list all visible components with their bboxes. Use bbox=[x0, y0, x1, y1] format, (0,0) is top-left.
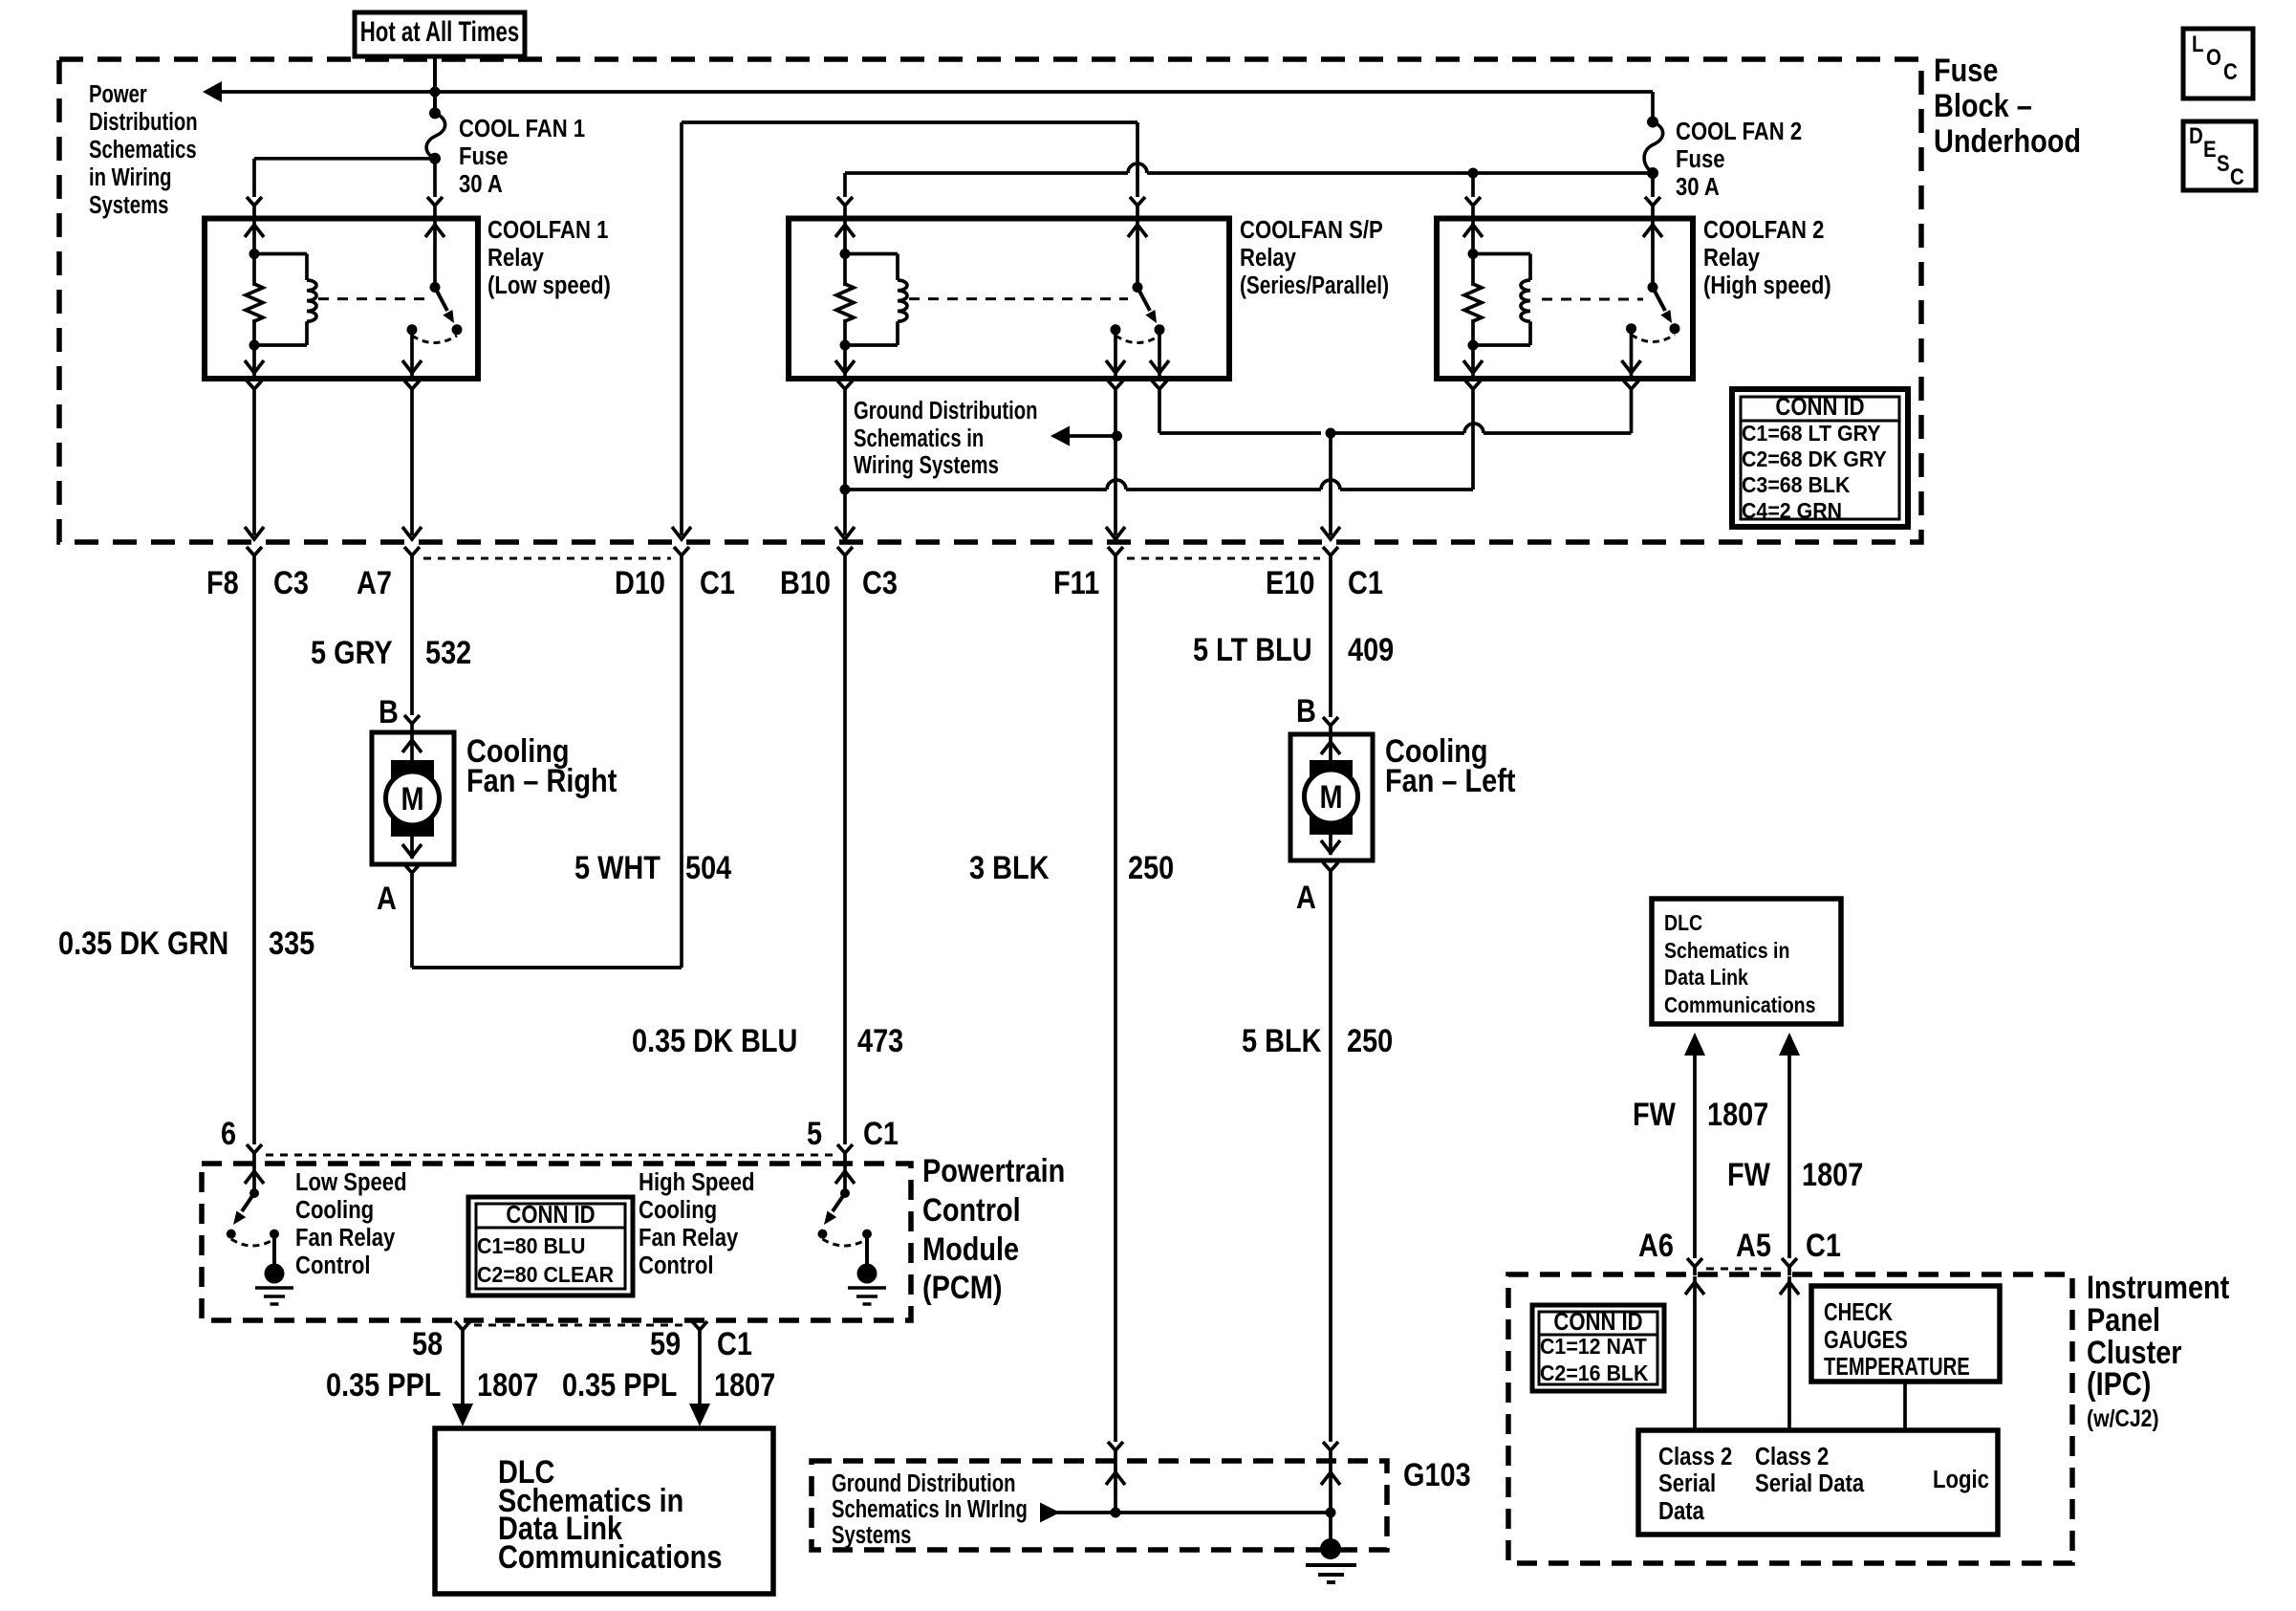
note Power Distribution Schematics in Wiring Systems bbox=[89, 80, 198, 219]
label G103 bbox=[1403, 1456, 1471, 1493]
resistor in relay K1 bbox=[246, 254, 263, 346]
note Ground Distribution Schematics in Wiring Systems upper bbox=[854, 397, 1037, 479]
relay K1 actuation dashed link bbox=[318, 297, 425, 300]
connector E10 C1 bbox=[1266, 547, 1383, 601]
svg-text:Control: Control bbox=[922, 1191, 1021, 1229]
svg-text:Class 2: Class 2 bbox=[1658, 1443, 1732, 1470]
svg-text:Control: Control bbox=[295, 1252, 370, 1279]
connector below relay K3 contact bbox=[1624, 381, 1639, 433]
svg-text:C2=80 CLEAR: C2=80 CLEAR bbox=[477, 1262, 614, 1287]
motor M2 cooling fan left bbox=[1290, 692, 1373, 916]
svg-text:Relay: Relay bbox=[1240, 244, 1296, 272]
svg-text:Panel: Panel bbox=[2087, 1301, 2160, 1339]
connector B10 C3 bbox=[780, 547, 898, 601]
connector tie line A6 to A5 bbox=[1706, 1268, 1778, 1271]
svg-text:Serial: Serial bbox=[1658, 1469, 1716, 1497]
connector F11 at G103 bbox=[1106, 1442, 1125, 1513]
svg-text:5: 5 bbox=[807, 1115, 822, 1152]
svg-text:Fan – Left: Fan – Left bbox=[1385, 762, 1516, 799]
svg-text:532: 532 bbox=[425, 634, 471, 671]
connector below relay K2 left contact bbox=[1108, 381, 1123, 535]
fuse COOL FAN 1 30 A bbox=[426, 107, 445, 163]
relay K2 right pin arrow bbox=[1128, 225, 1147, 237]
DLC Schematics box lower left bbox=[435, 1428, 773, 1594]
ground inside PCM low speed bbox=[255, 1234, 293, 1304]
CONN ID table IPC bbox=[1532, 1305, 1664, 1391]
logic box in IPC bbox=[1638, 1430, 1998, 1535]
connector tie line F11 to E10 bbox=[1127, 557, 1320, 560]
svg-text:M: M bbox=[1319, 778, 1342, 816]
wire high speed coil feed from B10 bbox=[840, 480, 1474, 495]
connector fan left ground at G103 bbox=[1321, 1442, 1340, 1513]
connector tie line 58 to 59 bbox=[474, 1324, 688, 1327]
svg-text:(Low speed): (Low speed) bbox=[487, 272, 611, 299]
ground inside PCM high speed bbox=[848, 1234, 886, 1304]
svg-text:1807: 1807 bbox=[1802, 1156, 1863, 1193]
svg-text:CONN ID: CONN ID bbox=[1553, 1308, 1642, 1336]
relay K2 coil assembly bbox=[840, 249, 908, 351]
pin 58 connector below PCM bbox=[412, 1321, 470, 1362]
label 0.35 DK BLU 473 bbox=[632, 1022, 903, 1059]
wire 59 down to DLC bbox=[689, 1339, 710, 1426]
high speed control switch in PCM bbox=[818, 1162, 873, 1246]
CONN ID table PCM bbox=[468, 1197, 633, 1295]
label Instrument Panel Cluster IPC bbox=[2087, 1269, 2230, 1432]
wire class2 A6 inside IPC bbox=[1685, 1276, 1704, 1430]
Fuse Block - Underhood dashed boundary bbox=[59, 59, 1921, 542]
label 0.35 PPL 1807 left bbox=[326, 1366, 538, 1404]
svg-text:High Speed: High Speed bbox=[639, 1168, 754, 1196]
svg-text:C1: C1 bbox=[863, 1115, 899, 1152]
svg-text:CONN ID: CONN ID bbox=[1775, 393, 1864, 421]
svg-text:C1: C1 bbox=[1806, 1227, 1841, 1264]
svg-text:Fuse: Fuse bbox=[1934, 52, 1998, 89]
connector D10 C1 bbox=[615, 547, 735, 601]
PCM dashed boundary bbox=[202, 1164, 911, 1320]
svg-text:C3: C3 bbox=[862, 564, 898, 601]
relay K2 coil exit wire bbox=[835, 345, 855, 376]
svg-text:250: 250 bbox=[1128, 849, 1174, 886]
connector relay2 right pin bbox=[1130, 197, 1145, 288]
svg-text:473: 473 bbox=[857, 1022, 903, 1059]
svg-text:A: A bbox=[377, 880, 397, 917]
relay K3 switch exit wire bbox=[1622, 329, 1641, 376]
power distribution bus wire with left arrow bbox=[203, 81, 1653, 102]
pin 5 C1 connector at PCM bbox=[807, 1115, 899, 1162]
relay K3 left pin arrow bbox=[1463, 225, 1483, 237]
svg-text:409: 409 bbox=[1348, 631, 1394, 668]
svg-text:Power: Power bbox=[89, 80, 147, 108]
relay K2 switch left contact exit wire bbox=[1106, 330, 1125, 376]
svg-text:D10: D10 bbox=[615, 564, 665, 601]
svg-text:Data: Data bbox=[1658, 1497, 1704, 1525]
svg-text:D: D bbox=[2189, 122, 2203, 148]
svg-text:FW: FW bbox=[1633, 1096, 1676, 1133]
svg-text:C1=68 LT GRY: C1=68 LT GRY bbox=[1742, 421, 1881, 446]
svg-text:6: 6 bbox=[221, 1115, 236, 1152]
motor M1 cooling fan right bbox=[372, 693, 454, 917]
svg-text:C3=68 BLK: C3=68 BLK bbox=[1742, 472, 1850, 497]
svg-text:C2=16 BLK: C2=16 BLK bbox=[1540, 1361, 1648, 1385]
relay K2 actuation dashed link bbox=[909, 297, 1128, 300]
svg-text:FW: FW bbox=[1727, 1156, 1770, 1193]
relay K1 right pin arrow bbox=[425, 225, 444, 237]
relay K1 switch bbox=[407, 282, 463, 343]
svg-text:Systems: Systems bbox=[832, 1521, 911, 1549]
relay K3 COOLFAN 2 box bbox=[1437, 219, 1693, 380]
relay K3 coil assembly mirrored bbox=[1468, 249, 1531, 351]
label COOLFAN 1 Relay (Low speed) bbox=[487, 216, 611, 299]
svg-text:0.35 DK GRN: 0.35 DK GRN bbox=[58, 925, 228, 962]
svg-text:in Wiring: in Wiring bbox=[89, 163, 171, 191]
label FW 1807 second bbox=[1727, 1156, 1863, 1193]
label 3 BLK 250 bbox=[969, 849, 1174, 886]
label 0.35 PPL 1807 right bbox=[562, 1366, 775, 1404]
wire fuse1 output to relay1 pins bbox=[254, 159, 435, 197]
svg-text:30 A: 30 A bbox=[1676, 173, 1720, 201]
svg-text:GAUGES: GAUGES bbox=[1824, 1326, 1908, 1354]
connector below relay K2 coil bbox=[837, 381, 853, 535]
border exit arrows on fuse block bottom bbox=[245, 527, 1340, 539]
svg-text:CONN ID: CONN ID bbox=[506, 1201, 595, 1229]
svg-text:1807: 1807 bbox=[714, 1366, 775, 1404]
relay K3 right pin arrow bbox=[1643, 225, 1662, 237]
svg-text:5 GRY: 5 GRY bbox=[311, 634, 393, 671]
svg-text:C1: C1 bbox=[1348, 564, 1383, 601]
svg-text:Relay: Relay bbox=[1703, 244, 1760, 272]
connector F11 bbox=[1053, 547, 1123, 601]
svg-text:Fuse: Fuse bbox=[459, 142, 509, 170]
label 5 GRY 532 bbox=[311, 634, 471, 671]
LOC reference box bbox=[2183, 29, 2253, 98]
svg-text:Wiring Systems: Wiring Systems bbox=[854, 451, 999, 479]
label Low Speed Cooling Fan Relay Control bbox=[295, 1168, 407, 1279]
svg-text:Relay: Relay bbox=[487, 244, 544, 272]
wire relay K2 right contact over to relay K3 contact bbox=[1159, 424, 1632, 433]
connector tie line A7 to D10 bbox=[423, 557, 671, 560]
svg-text:Serial Data: Serial Data bbox=[1755, 1469, 1865, 1497]
DLC Schematics box upper right bbox=[1652, 899, 1841, 1024]
relay K2 left pin arrow bbox=[835, 225, 855, 237]
connector relay2 left pin bbox=[837, 197, 853, 254]
svg-text:C: C bbox=[2223, 58, 2238, 84]
svg-text:Logic: Logic bbox=[1933, 1466, 1989, 1493]
svg-text:Instrument: Instrument bbox=[2087, 1269, 2230, 1306]
svg-text:5 BLK: 5 BLK bbox=[1242, 1022, 1322, 1059]
wire D10 down and over to fan right A bbox=[412, 564, 682, 968]
svg-text:Fan – Right: Fan – Right bbox=[466, 762, 617, 799]
svg-text:C1: C1 bbox=[700, 564, 735, 601]
svg-text:Distribution: Distribution bbox=[89, 108, 198, 136]
low speed control switch in PCM bbox=[227, 1162, 279, 1246]
relay K1 switch exit wire bbox=[402, 330, 422, 376]
svg-text:Systems: Systems bbox=[89, 191, 168, 219]
svg-text:B: B bbox=[379, 693, 399, 730]
svg-text:59: 59 bbox=[650, 1325, 681, 1362]
svg-text:Underhood: Underhood bbox=[1934, 122, 2081, 160]
label Fuse Block - Underhood bbox=[1934, 52, 2081, 160]
svg-text:Fan Relay: Fan Relay bbox=[295, 1224, 396, 1252]
svg-text:G103: G103 bbox=[1403, 1456, 1471, 1493]
relay K3 actuation dashed link bbox=[1542, 298, 1643, 301]
relay K2 COOLFAN S/P box bbox=[789, 219, 1229, 380]
svg-text:Block –: Block – bbox=[1934, 87, 2032, 124]
ground G103 symbol bbox=[1306, 1513, 1356, 1582]
connector relay1 left pin bbox=[247, 197, 262, 254]
svg-text:(High speed): (High speed) bbox=[1703, 272, 1831, 299]
relay K3 coil exit wire bbox=[1463, 345, 1483, 376]
svg-text:F11: F11 bbox=[1053, 564, 1099, 601]
svg-text:Class 2: Class 2 bbox=[1755, 1443, 1829, 1470]
label Cooling Fan Right bbox=[466, 732, 617, 799]
svg-text:Module: Module bbox=[922, 1230, 1019, 1268]
wire fan left A down to G103 bbox=[1329, 880, 1332, 1442]
svg-text:Fan Relay: Fan Relay bbox=[639, 1224, 739, 1252]
svg-text:C4=2 GRN: C4=2 GRN bbox=[1742, 498, 1842, 523]
svg-text:Hot at All Times: Hot at All Times bbox=[360, 15, 519, 48]
relay K1 COOLFAN 1 box bbox=[205, 219, 478, 380]
svg-text:0.35 PPL: 0.35 PPL bbox=[562, 1366, 677, 1404]
svg-text:1807: 1807 bbox=[477, 1366, 538, 1404]
svg-text:Control: Control bbox=[639, 1252, 713, 1279]
wire D10 feed riser to relay2 switch common bbox=[682, 122, 1137, 535]
fuse COOL FAN 2 30 A bbox=[1644, 117, 1663, 180]
ground bus wire in G103 bbox=[1040, 1503, 1336, 1523]
svg-text:E: E bbox=[2203, 136, 2217, 162]
resistor in relay K2 bbox=[836, 254, 854, 346]
svg-text:5 LT BLU: 5 LT BLU bbox=[1193, 631, 1312, 668]
wire E10 down to fan left B bbox=[1329, 564, 1332, 717]
svg-text:58: 58 bbox=[412, 1325, 443, 1362]
svg-text:O: O bbox=[2206, 44, 2221, 70]
svg-text:COOLFAN 2: COOLFAN 2 bbox=[1703, 216, 1824, 244]
connector A7 bbox=[357, 547, 420, 601]
relay K1 left pin arrow bbox=[245, 225, 264, 237]
svg-text:COOL FAN 2: COOL FAN 2 bbox=[1676, 118, 1802, 145]
svg-text:Low Speed: Low Speed bbox=[295, 1168, 407, 1196]
CHECK GAUGES TEMPERATURE box bbox=[1811, 1286, 2000, 1382]
svg-text:(w/CJ2): (w/CJ2) bbox=[2087, 1404, 2159, 1431]
svg-text:M: M bbox=[401, 780, 423, 817]
svg-text:30 A: 30 A bbox=[459, 170, 503, 198]
svg-text:S: S bbox=[2217, 150, 2230, 176]
wire from Hot at All Times down bbox=[433, 56, 437, 113]
connector relay1 right pin bbox=[427, 197, 443, 288]
label Cooling Fan Left bbox=[1385, 732, 1516, 799]
G103 dashed boundary bbox=[812, 1461, 1387, 1550]
svg-text:COOLFAN 1: COOLFAN 1 bbox=[487, 216, 608, 244]
relay K1 coil assembly bbox=[249, 249, 317, 351]
label 5 LT BLU 409 bbox=[1193, 631, 1394, 668]
svg-text:Fuse: Fuse bbox=[1676, 145, 1725, 173]
svg-text:Ground Distribution: Ground Distribution bbox=[832, 1469, 1015, 1497]
svg-text:DLC: DLC bbox=[1664, 911, 1702, 936]
svg-text:Ground Distribution: Ground Distribution bbox=[854, 397, 1037, 425]
connector below relay K2 right contact bbox=[1152, 381, 1167, 433]
svg-text:A5: A5 bbox=[1736, 1227, 1771, 1264]
Hot at All Times power tag bbox=[355, 12, 525, 56]
svg-text:Communications: Communications bbox=[1664, 993, 1815, 1018]
wire B10 down to PCM bbox=[843, 564, 847, 1144]
svg-text:A6: A6 bbox=[1638, 1227, 1674, 1264]
wire A5 serial data up to DLC bbox=[1779, 1033, 1800, 1258]
connector tie line pin6 to pin5 bbox=[266, 1154, 834, 1157]
svg-text:A7: A7 bbox=[357, 564, 392, 601]
svg-text:5 WHT: 5 WHT bbox=[574, 849, 661, 886]
svg-text:3 BLK: 3 BLK bbox=[969, 849, 1050, 886]
svg-text:Cooling: Cooling bbox=[295, 1196, 374, 1224]
svg-text:Data Link: Data Link bbox=[1664, 966, 1748, 991]
node junction E10 tap bbox=[1326, 428, 1336, 536]
pin 59 C1 connector below PCM bbox=[650, 1321, 752, 1362]
svg-text:(IPC): (IPC) bbox=[2087, 1365, 2151, 1403]
relay K2 switch bbox=[1111, 282, 1165, 343]
svg-text:C3: C3 bbox=[273, 564, 309, 601]
CONN ID table fuse block bbox=[1732, 389, 1908, 527]
wire check gauges to logic box bbox=[1903, 1382, 1907, 1430]
connector below relay K1 left bbox=[247, 381, 262, 535]
label 5 WHT 504 bbox=[574, 849, 732, 886]
relay K1 coil exit wire bbox=[245, 345, 264, 376]
svg-text:1807: 1807 bbox=[1707, 1096, 1768, 1133]
relay K2 switch right contact exit wire bbox=[1150, 330, 1169, 376]
resistor in relay K3 bbox=[1464, 254, 1482, 346]
svg-text:Cooling: Cooling bbox=[639, 1196, 717, 1224]
svg-text:335: 335 bbox=[269, 925, 314, 962]
svg-text:B10: B10 bbox=[780, 564, 831, 601]
svg-text:CHECK: CHECK bbox=[1824, 1298, 1893, 1326]
label 5 BLK 250 bbox=[1242, 1022, 1393, 1059]
svg-text:Schematics In WIrIng: Schematics In WIrIng bbox=[832, 1495, 1028, 1523]
svg-text:F8: F8 bbox=[206, 564, 239, 601]
connector below relay K1 right bbox=[404, 381, 420, 535]
svg-text:Schematics: Schematics bbox=[89, 136, 197, 163]
label COOLFAN S/P Relay (Series/Parallel) bbox=[1240, 216, 1389, 298]
label FW 1807 first bbox=[1633, 1096, 1768, 1133]
relay K3 switch bbox=[1626, 282, 1680, 342]
wire fuse2 output bus to relay2 and relay3 coils bbox=[845, 163, 1653, 197]
label Powertrain Control Module PCM bbox=[922, 1152, 1065, 1306]
note Ground Distribution Schematics In Wiring Systems bbox=[832, 1469, 1028, 1549]
svg-text:C: C bbox=[2230, 163, 2244, 189]
svg-text:Powertrain: Powertrain bbox=[922, 1152, 1065, 1189]
svg-text:Schematics in: Schematics in bbox=[854, 425, 984, 452]
svg-text:0.35 PPL: 0.35 PPL bbox=[326, 1366, 441, 1404]
node junction relay3 coil feed bbox=[1468, 168, 1479, 198]
label 0.35 DK GRN 335 bbox=[58, 925, 314, 962]
svg-text:Schematics in: Schematics in bbox=[1664, 939, 1789, 964]
connector A5 C1 at IPC bbox=[1736, 1227, 1841, 1275]
connector F8 C3 bbox=[206, 547, 309, 601]
connector below relay K3 coil bbox=[1465, 381, 1481, 490]
connector relay3 left pin bbox=[1465, 197, 1481, 254]
svg-text:C1: C1 bbox=[717, 1325, 752, 1362]
IPC dashed boundary bbox=[1508, 1274, 2072, 1563]
svg-text:A: A bbox=[1296, 879, 1316, 916]
wire 58 down to DLC bbox=[452, 1339, 473, 1426]
svg-text:(Series/Parallel): (Series/Parallel) bbox=[1240, 272, 1389, 299]
svg-text:250: 250 bbox=[1347, 1022, 1393, 1059]
ground note arrow stub to F11 wire bbox=[1051, 426, 1122, 446]
label COOL FAN 1 Fuse 30 A bbox=[459, 115, 585, 198]
corner wire from bus down to fuse 2 bbox=[1651, 92, 1655, 122]
label High Speed Cooling Fan Relay Control bbox=[639, 1168, 754, 1279]
wire class2 A5 inside IPC bbox=[1780, 1276, 1799, 1430]
connector A6 at IPC bbox=[1638, 1227, 1702, 1275]
pin 6 connector at PCM bbox=[221, 1115, 262, 1162]
svg-text:C2=68 DK GRY: C2=68 DK GRY bbox=[1742, 446, 1887, 471]
label COOL FAN 2 Fuse 30 A bbox=[1676, 118, 1802, 201]
svg-text:C1=12 NAT: C1=12 NAT bbox=[1540, 1334, 1647, 1359]
svg-text:L: L bbox=[2192, 31, 2203, 56]
label COOLFAN 2 Relay (High speed) bbox=[1703, 216, 1831, 299]
wire F8 down to PCM bbox=[252, 564, 256, 1144]
svg-text:E10: E10 bbox=[1266, 564, 1314, 601]
connector relay3 right pin bbox=[1645, 197, 1660, 288]
svg-text:Communications: Communications bbox=[498, 1538, 722, 1576]
svg-text:COOLFAN S/P: COOLFAN S/P bbox=[1240, 216, 1383, 244]
svg-text:TEMPERATURE: TEMPERATURE bbox=[1824, 1353, 1970, 1381]
svg-text:(PCM): (PCM) bbox=[922, 1269, 1002, 1306]
DESC reference box bbox=[2183, 121, 2256, 190]
node junction on bus at fuse 1 bbox=[430, 87, 441, 98]
wire F11 down to G103 bbox=[1114, 564, 1117, 1442]
svg-text:C1=80 BLU: C1=80 BLU bbox=[477, 1233, 585, 1258]
svg-text:0.35 DK BLU: 0.35 DK BLU bbox=[632, 1022, 797, 1059]
wire A6 serial data up to DLC bbox=[1684, 1033, 1705, 1258]
svg-text:504: 504 bbox=[685, 849, 732, 886]
wire A7 down to fan right B bbox=[410, 564, 414, 715]
svg-text:B: B bbox=[1296, 692, 1316, 729]
wire fuse2 down to relay3 switch pin bbox=[1651, 173, 1655, 197]
svg-text:COOL FAN 1: COOL FAN 1 bbox=[459, 115, 585, 142]
